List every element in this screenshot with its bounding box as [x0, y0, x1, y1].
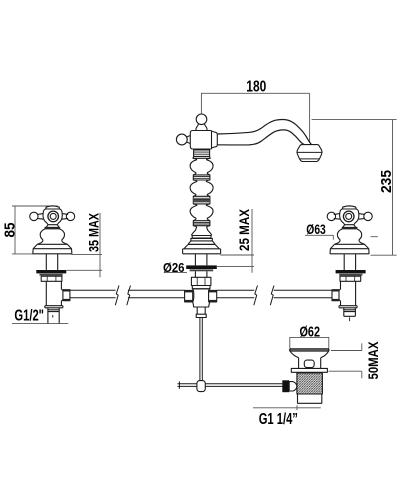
right supply pipe: [217, 290, 332, 298]
label G1 1/4": [253, 405, 321, 410]
clamp plate left: [40, 274, 63, 276]
dimension 25 MAX: [217, 209, 254, 273]
overflow hole: [304, 360, 314, 367]
dimension 180: [201, 93, 310, 142]
dimension 50MAX: [329, 343, 362, 378]
finial ball: [196, 114, 207, 125]
pop-up rod horizontal: [178, 384, 283, 387]
label Ø26: [164, 272, 187, 274]
inlet hex nut right: [332, 290, 339, 301]
dimension Ø62: [289, 337, 329, 348]
inlet boss right: [337, 289, 340, 301]
waste threaded body: [297, 373, 323, 394]
column vase segment 2: [190, 180, 213, 196]
inlet tail left: [48, 308, 59, 324]
svg-text:85: 85: [1, 223, 18, 238]
valve body right: [339, 281, 357, 308]
pop-up rod vertical: [200, 318, 202, 381]
dimension 35 MAX: [67, 213, 103, 277]
svg-text:180: 180: [246, 79, 266, 96]
T right connector nut: [209, 290, 217, 302]
handle neck right: [343, 225, 356, 228]
clamp plate center: [190, 269, 214, 271]
rubber washer left (black): [36, 270, 66, 273]
right pipe break marks: [254, 286, 274, 306]
outlet hex nut left: [63, 290, 70, 301]
rod end tick: [178, 381, 180, 388]
valve body left: [45, 281, 63, 308]
column base flare: [183, 236, 221, 254]
rod joint nut (black): [282, 380, 289, 392]
right inlet tail: [344, 308, 356, 321]
finial base: [196, 124, 207, 131]
hex nut center: [191, 277, 211, 285]
spout head body: [190, 131, 211, 150]
aerator end cap: [297, 145, 322, 162]
label Ø63: [305, 235, 378, 240]
backnut right: [340, 276, 361, 281]
handle neck: [46, 225, 59, 228]
backnut left: [41, 276, 62, 281]
clamp plate right: [339, 274, 362, 276]
side knob: [176, 134, 187, 145]
column rings B: [193, 175, 210, 180]
spout column unit: [176, 114, 322, 318]
spout tube: [217, 119, 311, 144]
T bottom stem: [197, 307, 205, 314]
dimension 235: [312, 120, 397, 256]
left pipe break marks: [115, 286, 130, 306]
svg-text:Ø63: Ø63: [306, 222, 326, 237]
waste neck: [299, 358, 321, 369]
waste tail: [298, 394, 322, 403]
neck rings A: [193, 150, 210, 158]
T-fitting body: [193, 289, 210, 307]
svg-text:25 MAX: 25 MAX: [237, 209, 252, 251]
pop-up waste: [282, 349, 329, 403]
rod collar: [196, 314, 206, 317]
bell base left: [33, 227, 72, 254]
waste funnel rim: [290, 349, 329, 351]
waste flange: [291, 368, 327, 372]
threaded shank center: [195, 254, 207, 266]
left supply pipe: [70, 290, 185, 298]
right valve unit (mirrored): [327, 206, 372, 308]
svg-text:G1/2": G1/2": [14, 307, 44, 324]
svg-text:50MAX: 50MAX: [366, 342, 381, 380]
svg-text:235: 235: [378, 170, 395, 193]
svg-text:Ø26: Ø26: [163, 260, 185, 275]
column rings D: [193, 221, 210, 226]
left valve unit: [30, 206, 75, 324]
svg-text:35 MAX: 35 MAX: [86, 213, 101, 252]
shank below plate: [195, 271, 207, 277]
outlet boss left: [61, 289, 64, 301]
rubber washer right (black): [336, 270, 366, 273]
threaded shank right: [344, 254, 355, 270]
column vase segment 3: [190, 204, 213, 221]
column rings C shaded: [193, 196, 210, 204]
rubber washer center (black): [186, 265, 217, 269]
T left connector nut: [185, 290, 193, 302]
column vase segment 1: [190, 158, 213, 175]
svg-text:Ø62: Ø62: [300, 323, 321, 340]
threaded shank left: [46, 254, 57, 270]
svg-text:G1 1/4”: G1 1/4”: [259, 411, 298, 428]
cross handle left: [30, 206, 75, 225]
bell base right: [330, 227, 369, 254]
label G1/2": [12, 323, 68, 325]
rod joint sleeve: [289, 382, 297, 391]
column neck to base: [191, 226, 212, 236]
rod ball joint: [197, 381, 205, 392]
dimension 85: [12, 206, 58, 254]
cross handle right: [327, 206, 372, 225]
waste funnel cone: [290, 351, 329, 358]
spout head collar: [212, 131, 218, 150]
T-fitting collar: [192, 286, 210, 289]
